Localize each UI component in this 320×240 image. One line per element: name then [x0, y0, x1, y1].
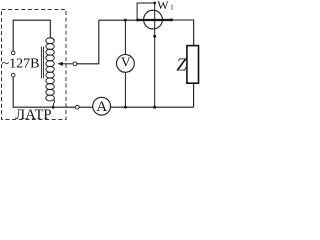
bottom rail right of ammeter — [111, 106, 194, 108]
wire: load Z to bottom rail — [193, 84, 195, 108]
wattmeter vertical voltage lead — [154, 3, 156, 107]
magnetic core (double line) — [40, 47, 42, 79]
ЛАТР block dashed enclosure — [2, 10, 67, 120]
svg-text:~127В: ~127В — [2, 57, 40, 72]
voltmeter lower lead — [124, 72, 126, 107]
top rail — [99, 19, 138, 21]
junction dot top rail / voltmeter — [124, 19, 127, 22]
junction dot right of wattmeter — [170, 18, 173, 21]
svg-text:1: 1 — [170, 4, 173, 11]
svg-text:V: V — [121, 55, 131, 70]
polarity dot under wattmeter — [153, 35, 156, 38]
wattmeter current coil (thick segment) — [138, 19, 172, 21]
wire: upper input lead to winding top — [13, 20, 50, 51]
input terminal upper — [11, 51, 15, 55]
tap output terminal — [73, 62, 77, 66]
junction: winding bottom to output wire — [52, 106, 55, 109]
input terminal lower — [11, 73, 15, 77]
bracket corner dot — [153, 2, 156, 5]
wire: tap to top rail — [77, 20, 99, 64]
svg-text:Z: Z — [176, 55, 187, 75]
voltmeter riser top — [124, 20, 126, 55]
wattmeter W1 circle — [144, 10, 163, 29]
wire: lower input lead down and right to winding bottom junction — [13, 77, 52, 107]
voltmeter V circle — [117, 55, 135, 73]
load Z rectangle — [187, 46, 199, 84]
svg-text:ЛАТР: ЛАТР — [15, 107, 51, 123]
wire: top rail to load Z — [193, 20, 195, 45]
ammeter A circle — [93, 97, 111, 115]
wattmeter voltage lead bracket — [137, 3, 155, 20]
svg-text:W: W — [157, 0, 169, 12]
junction dot bottom / voltmeter — [124, 106, 127, 109]
junction dot left of wattmeter — [136, 19, 139, 22]
svg-text:А: А — [96, 98, 107, 115]
bottom output terminal — [75, 105, 79, 109]
junction dot bottom / wattmeter lead — [153, 106, 156, 109]
wiper arrow of autotransformer — [62, 63, 73, 65]
wire: bottom rail from junction to ammeter — [55, 106, 76, 108]
autotransformer winding W (loops) — [46, 38, 55, 108]
